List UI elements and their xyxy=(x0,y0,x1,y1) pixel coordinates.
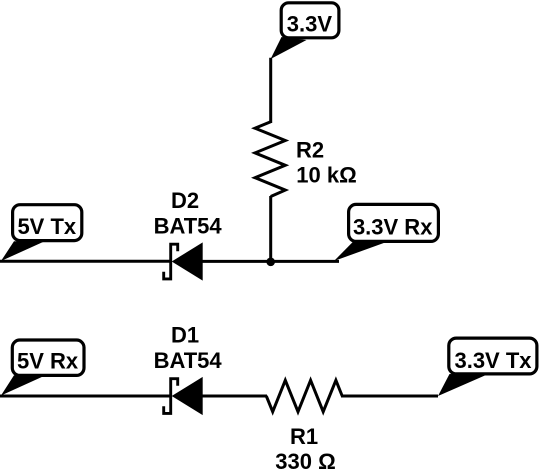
junction node dot xyxy=(266,258,275,267)
svg-text:D1: D1 xyxy=(171,323,199,348)
svg-text:BAT54: BAT54 xyxy=(154,348,223,373)
svg-text:R1: R1 xyxy=(290,424,318,449)
net flag 3.3V Rx xyxy=(334,204,438,261)
svg-text:330 Ω: 330 Ω xyxy=(275,449,335,470)
diode D1 triangle xyxy=(172,377,203,415)
wire: D2 to 3.3V Rx xyxy=(202,260,339,263)
resistor R1 xyxy=(266,380,342,411)
svg-text:R2: R2 xyxy=(296,138,324,163)
wire: bottom row, 5V Rx to D1 xyxy=(0,395,171,398)
diode D2 (BAT54 schottky): cathode bar with hooks xyxy=(164,244,178,279)
wire: R1 to 3.3V Tx xyxy=(341,395,438,398)
net flag 3.3V Tx xyxy=(438,338,537,396)
svg-text:10 kΩ: 10 kΩ xyxy=(296,163,356,188)
svg-text:5V Tx: 5V Tx xyxy=(17,214,76,239)
wire: middle row, 5V Tx to D2 xyxy=(0,260,171,263)
diode D2 triangle xyxy=(172,242,203,280)
svg-text:3.3V Rx: 3.3V Rx xyxy=(353,214,433,239)
resistor R2 xyxy=(255,122,285,197)
wire from 3.3V flag down to R2 xyxy=(269,58,272,123)
wire from R2 down to node xyxy=(269,196,272,262)
svg-text:BAT54: BAT54 xyxy=(154,214,223,239)
svg-text:3.3V Tx: 3.3V Tx xyxy=(454,348,532,373)
svg-text:D2: D2 xyxy=(171,188,199,213)
net flag 5V Tx xyxy=(1,205,82,261)
net flag 5V Rx xyxy=(1,340,84,396)
svg-text:3.3V: 3.3V xyxy=(287,12,333,37)
wire: D1 to R1 xyxy=(202,395,267,398)
svg-text:5V Rx: 5V Rx xyxy=(17,349,79,374)
diode D1 (BAT54 schottky): cathode bar with hooks xyxy=(164,379,178,414)
net flag 3.3V xyxy=(271,3,339,59)
